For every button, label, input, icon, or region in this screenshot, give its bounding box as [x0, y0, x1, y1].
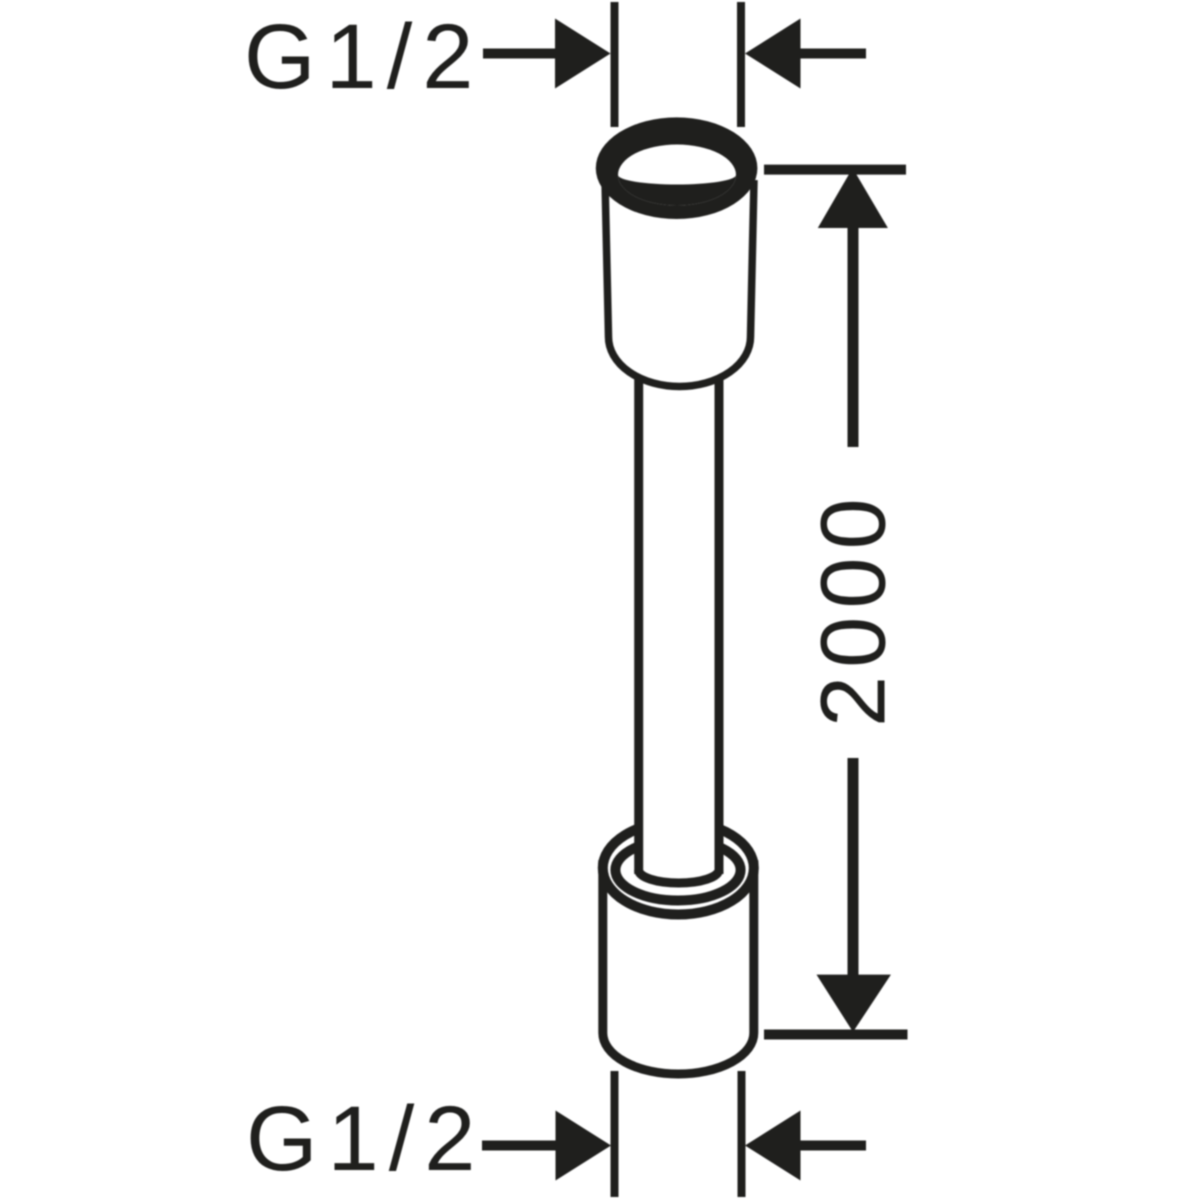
dimension line top-left [483, 49, 560, 59]
bottom connector nut ring outer [603, 822, 754, 915]
bottom connector body [603, 860, 754, 1074]
dimension line 2000 lower shaft [848, 758, 859, 978]
extension line top left [611, 2, 619, 127]
dimension line bottom-right [800, 1141, 866, 1151]
svg-text:2000: 2000 [803, 490, 905, 727]
dimension line top-right [799, 49, 866, 59]
arrowhead bottom-right pointing left [745, 1111, 801, 1181]
dimension line 2000 bottom tick [764, 1030, 908, 1040]
hose tube left edge [634, 378, 643, 874]
top connector nut ring [596, 117, 758, 219]
top connector inner wall crescent [618, 175, 736, 206]
extension line top right [737, 2, 745, 127]
dimension line 2000 upper shaft [848, 225, 859, 447]
top connector opening [618, 145, 736, 206]
top connector body [605, 180, 754, 387]
extension line bottom right [738, 1071, 746, 1197]
arrowhead 2000 pointing down [817, 975, 891, 1032]
arrowhead 2000 pointing up [818, 168, 888, 228]
arrowhead top-right pointing left [745, 19, 801, 89]
hose end arc in bottom ring [639, 870, 719, 883]
svg-text:G1/2: G1/2 [244, 6, 483, 108]
bottom connector nut ring inner [615, 840, 740, 901]
hose tube right edge [715, 378, 724, 874]
extension line bottom left [611, 1071, 619, 1197]
arrowhead top-left pointing right [555, 19, 611, 89]
dimension line bottom-left [482, 1141, 560, 1151]
arrowhead bottom-left pointing right [556, 1111, 612, 1181]
dimension line 2000 top tick [764, 165, 906, 175]
hose over ring mask [636, 805, 721, 874]
svg-text:G1/2: G1/2 [246, 1088, 485, 1190]
